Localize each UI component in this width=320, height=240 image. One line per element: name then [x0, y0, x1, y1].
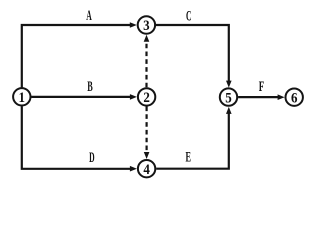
svg-text:6: 6: [291, 90, 298, 106]
svg-text:D: D: [89, 150, 95, 166]
svg-text:F: F: [259, 79, 265, 95]
svg-text:5: 5: [225, 90, 232, 106]
svg-text:1: 1: [19, 90, 26, 106]
svg-text:B: B: [87, 79, 93, 95]
svg-text:E: E: [185, 149, 191, 165]
svg-text:2: 2: [143, 90, 150, 106]
svg-text:A: A: [86, 8, 92, 24]
svg-text:4: 4: [143, 162, 150, 178]
svg-text:3: 3: [143, 18, 150, 34]
svg-text:C: C: [186, 9, 192, 25]
